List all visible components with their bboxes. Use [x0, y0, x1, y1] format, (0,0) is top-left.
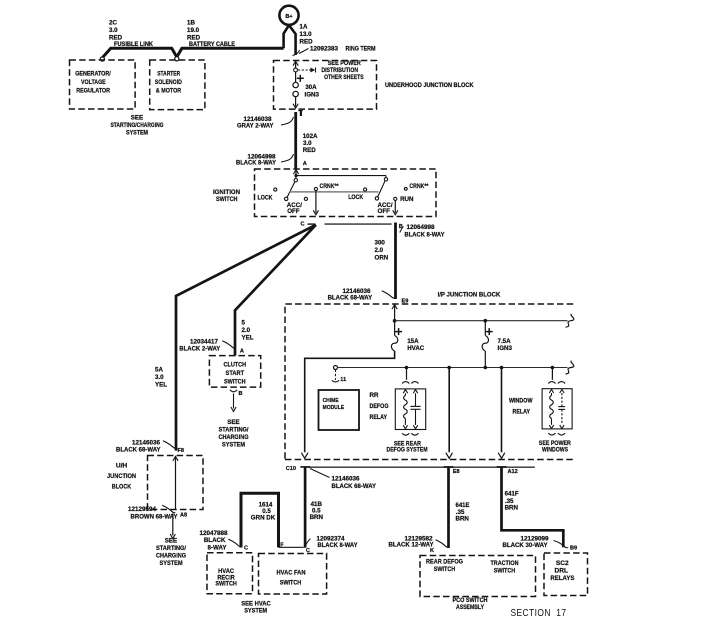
node tap to power distribution — [294, 68, 298, 72]
svg-text:RED: RED — [300, 39, 314, 46]
svg-text:CRNK**: CRNK** — [320, 183, 339, 190]
svg-text:FUSIBLE LINK: FUSIBLE LINK — [114, 41, 153, 48]
starter solenoid & motor — [150, 60, 205, 110]
wire 641E from E8 to rear defog switch — [447, 467, 450, 548]
svg-text:C10: C10 — [286, 466, 296, 472]
wire CRNK to C exit — [315, 191, 317, 213]
wire A12 drop — [501, 368, 503, 453]
svg-text:SEE POWER: SEE POWER — [328, 60, 361, 67]
svg-text:A12: A12 — [508, 469, 518, 475]
switch wiper 2 — [385, 176, 387, 178]
connector 12092374 black 8-way — [306, 539, 311, 546]
wire break continuation lower bus — [566, 361, 574, 374]
svg-text:SWITCH: SWITCH — [215, 581, 237, 588]
terminal tick at C — [308, 223, 316, 225]
svg-text:5A: 5A — [155, 367, 163, 374]
svg-text:2C: 2C — [109, 20, 117, 27]
wire 1614 hvac recirc loop — [241, 493, 279, 547]
svg-text:OFF: OFF — [287, 208, 300, 215]
svg-text:SECTION 17: SECTION 17 — [511, 607, 567, 619]
wire entry E9 — [392, 305, 397, 310]
svg-text:K: K — [430, 548, 434, 554]
svg-text:BLACK 8-WAY: BLACK 8-WAY — [236, 159, 277, 166]
svg-text:LOCK: LOCK — [348, 194, 363, 201]
connector 12146036 black 68-way at E9 — [382, 291, 395, 298]
wire dashed to other sheets — [298, 69, 309, 71]
switch wiper 1 — [295, 176, 297, 179]
svg-text:IGN3: IGN3 — [305, 91, 320, 98]
svg-text:2.0: 2.0 — [375, 247, 384, 254]
svg-text:START: START — [226, 370, 245, 377]
U/H junction block — [148, 456, 204, 510]
svg-text:12146036: 12146036 — [132, 439, 161, 446]
wire entry into underhood block — [295, 62, 297, 68]
wire ignition feed bar — [296, 175, 386, 177]
svg-text:SWITCH: SWITCH — [224, 379, 246, 386]
svg-text:5: 5 — [242, 320, 246, 327]
node junction E8 tap — [447, 366, 451, 370]
svg-text:E8: E8 — [453, 469, 460, 475]
svg-text:C: C — [244, 546, 248, 552]
wire 15A output to C10 — [305, 351, 395, 452]
svg-text:12129594: 12129594 — [128, 506, 157, 513]
generator/voltage regulator — [70, 60, 136, 109]
sc2 drl relays — [544, 553, 588, 596]
node junction A12 tap — [500, 366, 504, 370]
svg-text:STARTING/: STARTING/ — [156, 545, 186, 552]
svg-text:SYSTEM: SYSTEM — [160, 560, 183, 567]
svg-text:RED: RED — [303, 147, 317, 154]
terminal bars C10 E8 A12 — [300, 466, 310, 468]
svg-text:SWITCH: SWITCH — [216, 196, 238, 203]
node generator terminal — [100, 57, 104, 61]
node pin 11 terminal on lower bus — [334, 366, 338, 370]
svg-text:DISTRIBUTION: DISTRIBUTION — [321, 67, 358, 74]
svg-text:8-WAY: 8-WAY — [207, 544, 227, 551]
svg-text:BATTERY CABLE: BATTERY CABLE — [189, 41, 235, 48]
svg-text:11: 11 — [340, 377, 346, 383]
svg-text:BLACK 68-WAY: BLACK 68-WAY — [332, 483, 377, 490]
svg-text:BLACK: BLACK — [204, 537, 226, 544]
connector 12146036 black 68-way at F8 — [163, 441, 176, 448]
svg-text:A8: A8 — [180, 513, 187, 519]
wire C to U/H junction block — [176, 225, 316, 451]
svg-text:3.0: 3.0 — [155, 374, 164, 381]
connector body line C to B — [325, 223, 392, 225]
svg-text:BLACK 8-WAY: BLACK 8-WAY — [405, 231, 446, 238]
wire battery cable from B+ down to junctions — [284, 25, 289, 48]
svg-text:CRNK**: CRNK** — [409, 183, 428, 190]
node junction 7.5A tap — [484, 319, 488, 323]
svg-text:3.0: 3.0 — [109, 27, 118, 34]
svg-text:641E: 641E — [456, 502, 470, 509]
wire 300 ORN from B to I/P block — [394, 223, 397, 300]
svg-text:B: B — [239, 391, 243, 397]
svg-text:RELAY: RELAY — [513, 409, 531, 416]
svg-text:CHARGING: CHARGING — [219, 434, 249, 441]
svg-text:U/H: U/H — [116, 463, 128, 470]
wire 102A from underhood block to ignition switch — [294, 112, 297, 169]
connector 12146038 gray 2-way — [281, 117, 294, 125]
svg-text:SEE: SEE — [227, 419, 239, 426]
svg-text:15A: 15A — [407, 338, 419, 345]
connector 12129099 black 30-way — [554, 541, 569, 548]
svg-text:BRN: BRN — [505, 505, 519, 512]
svg-text:RELAY: RELAY — [370, 414, 388, 421]
contact CRNK 2 — [404, 187, 407, 190]
svg-text:VOLTAGE: VOLTAGE — [81, 79, 106, 86]
svg-text:19.0: 19.0 — [187, 27, 200, 34]
wire E8 drop — [448, 368, 450, 453]
svg-text:ORN: ORN — [375, 255, 389, 262]
wire RUN to B exit — [394, 201, 396, 213]
svg-text:12064998: 12064998 — [407, 224, 436, 231]
svg-text:UNDERHOOD JUNCTION BLOCK: UNDERHOOD JUNCTION BLOCK — [385, 82, 474, 89]
svg-text:DEFOG SYSTEM: DEFOG SYSTEM — [387, 447, 428, 454]
svg-text:& MOTOR: & MOTOR — [156, 87, 182, 94]
node starter terminal — [175, 57, 179, 61]
window relay — [542, 389, 572, 429]
pcd switch assembly — [420, 556, 536, 597]
svg-text:SEE: SEE — [165, 538, 177, 545]
fuse 15A HVAC — [394, 321, 396, 336]
svg-text:12047888: 12047888 — [200, 530, 229, 537]
ignition switch — [255, 169, 437, 217]
battery positive terminal B+ — [279, 6, 298, 25]
hvac recir switch — [207, 553, 253, 594]
svg-text:GRN DK: GRN DK — [251, 514, 276, 521]
fuse 30A IGN3 — [295, 72, 297, 82]
clutch start switch — [209, 356, 260, 388]
svg-text:JUNCTION: JUNCTION — [107, 473, 136, 480]
svg-text:102A: 102A — [303, 133, 318, 140]
wire clutch to starting system — [230, 390, 237, 392]
svg-text:YEL: YEL — [155, 382, 167, 389]
connector 12064998 black 8-way ignition — [400, 227, 404, 233]
svg-text:REGULATOR: REGULATOR — [76, 87, 110, 94]
wire fuse output to block exit — [295, 97, 297, 107]
connector 12034417 black 2-way — [222, 341, 235, 348]
contact ACC/OFF 1 — [304, 197, 307, 200]
svg-text:SOLENOID: SOLENOID — [155, 79, 182, 86]
svg-text:F: F — [280, 543, 284, 549]
connector 12064998 black 8-way — [281, 154, 294, 162]
svg-text:7.5A: 7.5A — [498, 338, 512, 345]
I/P junction block — [285, 304, 575, 459]
svg-text:1B: 1B — [187, 20, 195, 27]
wire C to clutch start switch — [235, 225, 316, 356]
wire entry ignition — [293, 170, 298, 175]
chime module — [319, 390, 360, 430]
svg-text:WINDOWS: WINDOWS — [542, 447, 568, 454]
svg-text:RING TERM: RING TERM — [346, 46, 376, 53]
svg-text:SYSTEM: SYSTEM — [126, 130, 148, 137]
svg-text:IGNITION: IGNITION — [213, 189, 240, 196]
svg-text:CLUTCH: CLUTCH — [224, 362, 247, 369]
connector 12129582 black 12-way — [436, 540, 449, 547]
svg-text:30A: 30A — [305, 84, 317, 91]
hvac fan switch — [259, 554, 327, 595]
svg-text:BLACK 68-WAY: BLACK 68-WAY — [328, 295, 373, 302]
connector body line F to C — [279, 546, 304, 548]
svg-text:SYSTEM: SYSTEM — [222, 442, 245, 449]
svg-text:BLACK 8-WAY: BLACK 8-WAY — [318, 542, 359, 549]
svg-text:GENERATOR/: GENERATOR/ — [75, 70, 111, 77]
svg-text:REAR DEFOG: REAR DEFOG — [426, 559, 463, 566]
wire through U/H block — [173, 456, 178, 461]
svg-text:12034417: 12034417 — [190, 338, 219, 345]
svg-text:STARTING/CHARGING: STARTING/CHARGING — [111, 122, 164, 129]
wire exit to starting system — [172, 514, 174, 536]
svg-text:DEFOG: DEFOG — [370, 403, 389, 410]
contact RUN — [394, 197, 397, 200]
node junction E9 on upper bus — [393, 319, 397, 323]
node junction rr defog relay tap — [405, 366, 409, 370]
svg-text:12092383: 12092383 — [310, 46, 339, 53]
svg-text:OFF: OFF — [378, 208, 391, 215]
svg-text:DRL: DRL — [555, 567, 569, 574]
svg-text:B+: B+ — [285, 14, 293, 20]
svg-text:STARTER: STARTER — [157, 70, 180, 77]
connector 12047888 black 8-way — [228, 539, 241, 546]
rr defog relay feed — [406, 368, 408, 380]
node junction window relay tap — [551, 366, 555, 370]
svg-text:RELAYS: RELAYS — [550, 575, 575, 582]
svg-text:BROWN 68-WAY: BROWN 68-WAY — [131, 513, 179, 520]
svg-text:SWITCH: SWITCH — [434, 566, 456, 573]
svg-text:BLOCK: BLOCK — [112, 484, 132, 491]
svg-text:BLACK 12-WAY: BLACK 12-WAY — [389, 542, 435, 549]
bus upper feed — [395, 320, 568, 322]
fuse 7.5A IGN3 — [484, 321, 486, 336]
svg-text:641F: 641F — [505, 491, 519, 498]
wire fusible link / battery cable horizontal run — [103, 48, 284, 57]
svg-text:BRN: BRN — [456, 516, 470, 523]
svg-text:BLACK 30-WAY: BLACK 30-WAY — [503, 542, 549, 549]
svg-text:300: 300 — [375, 239, 386, 246]
bus lower feed — [338, 367, 568, 369]
rr defog relay — [395, 389, 425, 430]
svg-text:GRAY 2-WAY: GRAY 2-WAY — [237, 123, 274, 130]
svg-text:BLACK 2-WAY: BLACK 2-WAY — [179, 346, 221, 353]
window relay feed — [551, 369, 553, 380]
svg-text:B: B — [399, 224, 403, 230]
svg-text:RR: RR — [370, 392, 379, 399]
svg-text:F8: F8 — [178, 448, 185, 454]
svg-text:B9: B9 — [570, 546, 577, 552]
svg-text:TRACTION: TRACTION — [491, 560, 519, 567]
svg-text:BRN: BRN — [310, 514, 324, 521]
svg-text:1A: 1A — [300, 24, 308, 31]
wire 41B from C10 to hvac fan switch — [304, 467, 307, 548]
wire break continuation upper bus — [566, 314, 574, 327]
connector 12129594 brown 68-way at A8 — [162, 505, 175, 512]
coupling bar — [290, 191, 379, 193]
node junction fuse output — [484, 366, 488, 370]
svg-text:C: C — [300, 222, 304, 228]
underhood junction block — [274, 61, 377, 110]
svg-text:SC2: SC2 — [556, 560, 569, 567]
ring terminal 12092383 — [293, 50, 300, 56]
svg-text:SWITCH: SWITCH — [280, 579, 302, 586]
connector 12146036 body line — [308, 466, 535, 468]
svg-text:A: A — [303, 161, 307, 167]
svg-text:YEL: YEL — [242, 335, 254, 342]
svg-text:CHIME: CHIME — [323, 398, 339, 404]
svg-text:13.0: 13.0 — [300, 31, 313, 38]
svg-text:BLACK 68-WAY: BLACK 68-WAY — [116, 447, 161, 454]
svg-text:SWITCH: SWITCH — [494, 568, 516, 575]
svg-text:ASSEMBLY: ASSEMBLY — [456, 604, 485, 611]
contact LOCK 1 — [274, 188, 277, 191]
svg-text:MODULE: MODULE — [323, 405, 345, 411]
svg-text:RUN: RUN — [400, 196, 414, 203]
svg-text:LOCK: LOCK — [258, 194, 273, 201]
svg-text:HVAC FAN: HVAC FAN — [277, 570, 306, 577]
contact CRNK 1 — [314, 187, 317, 190]
wire 641F from A12 to DRL relays — [502, 467, 564, 547]
svg-text:12146036: 12146036 — [332, 476, 361, 483]
svg-text:A: A — [240, 348, 244, 354]
svg-text:HVAC: HVAC — [407, 345, 425, 352]
svg-text:SYSTEM: SYSTEM — [244, 607, 267, 614]
svg-text:STARTING/: STARTING/ — [219, 427, 249, 434]
svg-text:WINDOW: WINDOW — [509, 398, 533, 405]
svg-text:IGN3: IGN3 — [498, 345, 513, 352]
svg-text:I/P JUNCTION BLOCK: I/P JUNCTION BLOCK — [438, 292, 501, 299]
svg-text:OTHER SHEETS: OTHER SHEETS — [324, 74, 364, 81]
node pin 11 chime feed — [335, 370, 337, 381]
svg-text:CHARGING: CHARGING — [156, 553, 186, 560]
svg-text:2.0: 2.0 — [242, 327, 251, 334]
svg-text:SEE: SEE — [131, 115, 143, 122]
